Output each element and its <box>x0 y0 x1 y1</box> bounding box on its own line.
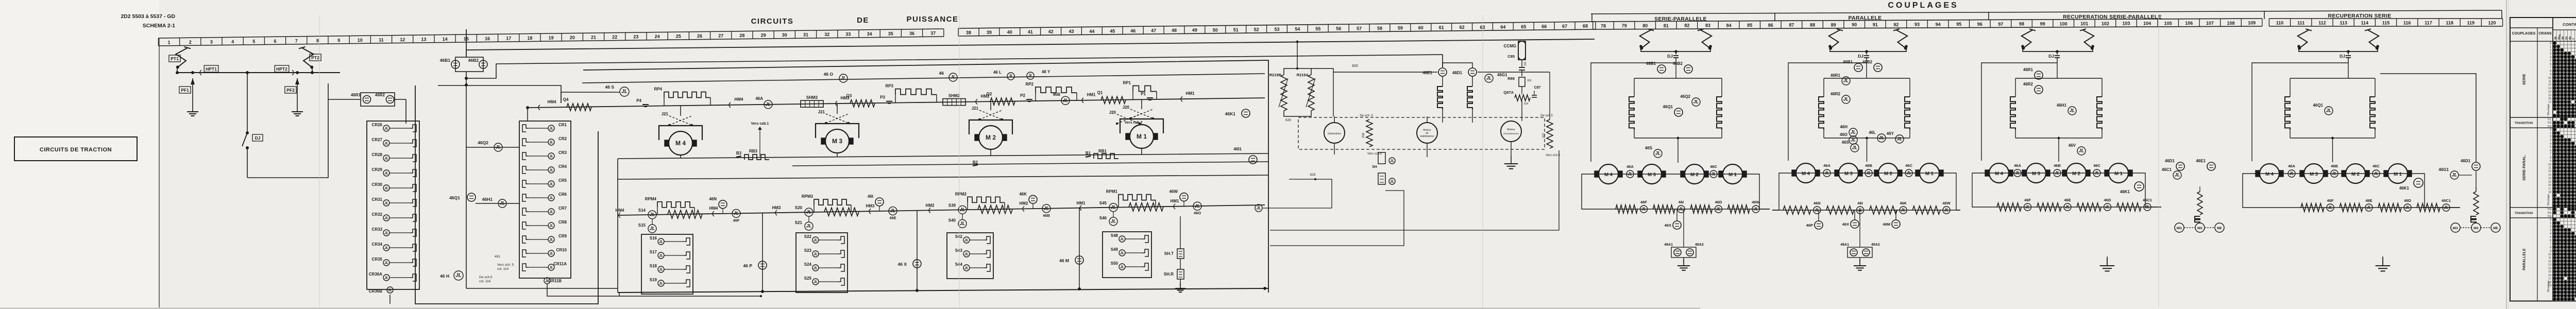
contactor S21 <box>805 222 813 230</box>
svg-text:17: 17 <box>506 36 511 41</box>
svg-text:46E: 46E <box>2365 198 2372 203</box>
svg-text:48: 48 <box>1172 28 1177 33</box>
resistor 206 <box>1366 119 1372 147</box>
contact HM4 third <box>619 213 620 218</box>
svg-text:6: 6 <box>2550 63 2551 66</box>
svg-text:46R1: 46R1 <box>2023 67 2033 72</box>
svg-text:46O: 46O <box>1840 132 1848 137</box>
motor entrainement <box>1501 121 1521 142</box>
resistor RPM1 <box>1118 200 1119 208</box>
outer enclosure box <box>415 85 598 304</box>
svg-text:27: 27 <box>718 33 723 39</box>
svg-text:39: 39 <box>987 30 992 35</box>
svg-text:CR26: CR26 <box>372 123 383 127</box>
svg-text:9: 9 <box>2550 73 2551 76</box>
svg-text:JL: JL <box>2065 205 2070 210</box>
contact P4 <box>642 104 649 105</box>
svg-text:46 Y: 46 Y <box>1042 70 1050 74</box>
resistor RP4 <box>664 98 665 106</box>
contactor 46W <box>1180 193 1188 201</box>
svg-text:80: 80 <box>1642 23 1648 28</box>
svg-text:46A: 46A <box>2014 163 2021 168</box>
contactor 46N <box>719 200 727 209</box>
svg-text:3: 3 <box>210 39 213 44</box>
motor M2 RSP <box>2066 163 2086 183</box>
resistor Q2 <box>990 98 1015 105</box>
svg-text:46A2: 46A2 <box>1695 243 1704 247</box>
svg-text:46F: 46F <box>1640 200 1647 204</box>
svg-text:S46: S46 <box>1099 216 1107 220</box>
resistor 46F <box>1997 203 2022 211</box>
svg-text:99: 99 <box>2040 22 2045 27</box>
pantograph right RS <box>2367 30 2379 48</box>
resistor 46W <box>1728 205 1750 213</box>
svg-text:HM4: HM4 <box>709 206 718 211</box>
contactor SH aux 2 <box>1389 178 1395 184</box>
svg-text:JL: JL <box>1901 208 1906 213</box>
contactor 46B1 <box>1854 63 1862 72</box>
svg-text:JL: JL <box>549 225 553 228</box>
contactor ladder S22-S25 <box>796 233 848 293</box>
svg-text:JL: JL <box>1044 206 1049 211</box>
svg-text:M 4: M 4 <box>2265 171 2274 177</box>
svg-text:JL: JL <box>1390 180 1394 184</box>
svg-text:JL: JL <box>1851 130 1856 135</box>
contactor 46B <box>1042 204 1050 213</box>
svg-text:206: 206 <box>1362 132 1365 138</box>
svg-text:16: 16 <box>2548 97 2551 100</box>
motor M2 P <box>1878 163 1898 183</box>
motor M1 SP <box>1723 164 1742 184</box>
svg-text:SHM3: SHM3 <box>806 95 818 100</box>
svg-text:DJ: DJ <box>1667 54 1673 59</box>
svg-text:46E1: 46E1 <box>2196 159 2206 163</box>
svg-text:CR7: CR7 <box>558 206 567 211</box>
svg-text:Vers cab.2: Vers cab.2 <box>1125 121 1143 125</box>
svg-text:5: 5 <box>252 39 255 44</box>
svg-text:JL: JL <box>814 267 818 270</box>
svg-text:29: 29 <box>761 33 766 38</box>
svg-text:JL: JL <box>2079 148 2084 153</box>
pantograph left RS <box>2298 30 2309 48</box>
svg-text:JL: JL <box>549 211 553 214</box>
svg-text:0: 0 <box>2550 129 2551 132</box>
svg-text:87: 87 <box>1789 23 1794 28</box>
svg-text:JL: JL <box>960 221 965 226</box>
resistor 46I <box>1826 206 1854 214</box>
wire DJ to coils <box>1866 63 1867 78</box>
wire couplage left drop <box>1591 63 1676 162</box>
svg-text:46H: 46H <box>1840 125 1848 129</box>
contactor S45 <box>1109 203 1117 212</box>
wire aux top <box>1414 72 1437 73</box>
contactor between motors <box>2331 170 2338 177</box>
wire aux long 2 <box>1270 191 1404 246</box>
contactor between motors <box>2093 169 2100 177</box>
svg-text:332: 332 <box>1524 61 1527 66</box>
svg-text:M 3: M 3 <box>1648 172 1656 178</box>
svg-text:46: 46 <box>1130 28 1136 33</box>
svg-text:JL: JL <box>384 232 388 235</box>
svg-text:3: 3 <box>2550 139 2551 142</box>
contactor 46D1 <box>2176 162 2184 170</box>
shunt SH.T <box>1177 249 1184 259</box>
svg-text:JL: JL <box>1111 218 1116 224</box>
svg-text:46I1: 46I1 <box>1233 147 1242 151</box>
inductor chain <box>1905 97 1910 130</box>
contactor 46K1 couplage4 <box>2414 178 2423 187</box>
svg-text:100: 100 <box>2060 21 2067 26</box>
title box CIRCUITS DE TRACTION <box>14 137 137 161</box>
svg-text:JL: JL <box>1753 207 1758 212</box>
svg-text:49: 49 <box>1192 28 1197 33</box>
svg-text:46B1: 46B1 <box>1843 60 1853 64</box>
resistor Q1 <box>1101 96 1126 104</box>
svg-text:Q2: Q2 <box>987 92 992 96</box>
svg-text:15: 15 <box>2548 94 2551 97</box>
svg-text:JL: JL <box>2025 205 2030 210</box>
svg-text:TRANSITION: TRANSITION <box>2515 122 2533 125</box>
svg-text:46W: 46W <box>1752 200 1760 204</box>
svg-text:SH: SH <box>1372 165 1377 169</box>
svg-text:JL: JL <box>1897 136 1903 142</box>
svg-text:8: 8 <box>2550 156 2551 159</box>
svg-text:46B: 46B <box>2054 163 2061 168</box>
svg-text:CR8: CR8 <box>558 220 567 225</box>
fold seam lines <box>319 15 320 306</box>
svg-text:11: 11 <box>379 37 384 42</box>
svg-text:JL: JL <box>2015 171 2020 176</box>
svg-text:JL: JL <box>1843 97 1849 102</box>
contactor ladder CR1-CR11B <box>519 121 571 278</box>
svg-text:46A2: 46A2 <box>1871 243 1880 247</box>
ground PF1 <box>192 106 193 112</box>
wire vertical 46M <box>1079 208 1080 289</box>
contactor ladder S42-S44 <box>947 233 993 279</box>
svg-text:2: 2 <box>2550 135 2551 139</box>
svg-text:46A: 46A <box>1823 163 1831 168</box>
inductor chain <box>1629 97 1634 130</box>
svg-text:4: 4 <box>2550 232 2551 235</box>
svg-text:RB1: RB1 <box>1098 149 1107 153</box>
resistor MS branch <box>2197 192 2202 215</box>
svg-text:46G1: 46G1 <box>2438 167 2449 172</box>
contactor between motors <box>2372 170 2380 177</box>
wire entrainement down <box>1511 142 1512 157</box>
svg-text:46B1: 46B1 <box>440 58 451 63</box>
contactor 46P <box>758 261 767 269</box>
svg-text:10: 10 <box>2548 77 2551 80</box>
wire bus second <box>466 55 1443 78</box>
svg-text:JL: JL <box>1906 171 1911 176</box>
svg-text:4: 4 <box>2550 56 2551 59</box>
svg-text:M 1: M 1 <box>1925 171 1934 177</box>
svg-text:28: 28 <box>739 33 744 38</box>
svg-text:B3: B3 <box>736 151 742 156</box>
svg-text:67: 67 <box>1562 24 1567 29</box>
svg-text:CR28: CR28 <box>372 152 383 157</box>
machine MS <box>2195 223 2205 232</box>
svg-text:MG: MG <box>2453 227 2458 230</box>
contact HM1 fourth <box>1174 204 1175 209</box>
svg-text:SCHEMA 2-1: SCHEMA 2-1 <box>143 23 175 29</box>
svg-text:23: 23 <box>633 35 638 40</box>
contactor S14 <box>648 211 656 219</box>
svg-text:HPT2: HPT2 <box>276 66 287 72</box>
svg-text:S19: S19 <box>650 278 657 282</box>
wire motor feed <box>990 101 991 110</box>
svg-text:46 H: 46 H <box>440 273 449 279</box>
svg-text:13: 13 <box>2548 87 2551 90</box>
wire DJ loop <box>247 83 328 178</box>
svg-text:S20: S20 <box>795 205 803 210</box>
svg-text:RPM1: RPM1 <box>1106 190 1118 194</box>
wire motor row <box>1984 173 2134 174</box>
contactor 46Q1 <box>1674 108 1683 116</box>
motor M1 P <box>1920 163 1939 183</box>
svg-text:Shuntage: Shuntage <box>2547 104 2550 115</box>
contact HM1 third <box>1080 205 1081 211</box>
svg-text:46D1: 46D1 <box>1452 71 1463 75</box>
svg-text:46B: 46B <box>1043 213 1050 218</box>
svg-text:19: 19 <box>549 36 554 41</box>
svg-text:Vers cab.1: Vers cab.1 <box>751 122 769 126</box>
contactor 46S <box>1654 149 1662 158</box>
svg-text:16: 16 <box>2548 274 2551 277</box>
bottom edge shadow <box>0 308 1700 309</box>
switch group J20 <box>1130 109 1153 118</box>
wire bus upper <box>466 39 1595 50</box>
contactor 46G1 <box>1485 74 1493 82</box>
resistor 46F <box>1616 205 1638 213</box>
svg-text:M 3: M 3 <box>832 138 842 145</box>
resistor 46W <box>1912 206 1940 214</box>
svg-text:34: 34 <box>867 31 872 37</box>
contactor between motors <box>2014 169 2021 177</box>
contactor S40 <box>958 219 967 228</box>
svg-text:15: 15 <box>2548 270 2551 273</box>
contactor between motors <box>1865 169 1872 177</box>
svg-text:41: 41 <box>1028 29 1033 35</box>
svg-text:RPM3: RPM3 <box>802 194 814 199</box>
svg-text:S21: S21 <box>795 220 803 225</box>
contactor 46F <box>732 209 740 217</box>
motor M3 SP <box>1642 164 1662 184</box>
motor M4 SP <box>1599 164 1618 184</box>
svg-text:M 4: M 4 <box>1802 171 1810 177</box>
svg-text:S40: S40 <box>948 218 956 222</box>
machine ME <box>2215 223 2224 232</box>
svg-text:46S: 46S <box>1842 140 1850 145</box>
svg-text:JL: JL <box>1641 207 1646 212</box>
svg-text:HM1: HM1 <box>1077 201 1086 205</box>
svg-text:JL: JL <box>1879 135 1885 141</box>
wire motor row <box>1790 173 1945 174</box>
switch group J21 <box>826 114 849 123</box>
contactor 46I <box>875 198 884 206</box>
svg-text:PARALLELE: PARALLELE <box>1849 15 1882 21</box>
resistor 46D <box>1690 205 1713 213</box>
contactor between motors <box>2054 169 2061 177</box>
svg-text:46H1: 46H1 <box>2057 103 2067 108</box>
contactor 46 <box>949 73 957 81</box>
wire bus B2 <box>792 162 1268 166</box>
svg-text:10: 10 <box>2548 163 2551 166</box>
contactor 46R2 <box>2035 85 2043 94</box>
svg-text:626: 626 <box>1285 118 1291 122</box>
svg-text:1: 1 <box>2550 222 2551 225</box>
column ruler 78-109 <box>1593 19 2262 22</box>
contact HM2 third <box>929 208 930 213</box>
svg-text:JL: JL <box>549 238 553 242</box>
svg-text:20: 20 <box>570 35 575 40</box>
wire aux row 1 <box>1263 208 1332 209</box>
svg-text:46I: 46I <box>1857 201 1862 205</box>
svg-text:JL: JL <box>659 241 663 244</box>
svg-text:46C1: 46C1 <box>2143 198 2152 202</box>
pantograph PT2 <box>301 48 313 67</box>
svg-text:P4: P4 <box>636 98 641 103</box>
svg-text:JL: JL <box>549 252 553 256</box>
svg-text:105: 105 <box>2164 21 2172 26</box>
contact tick <box>1082 98 1083 103</box>
svg-text:46C: 46C <box>1905 163 1912 168</box>
wire bottom bus 2 <box>466 288 618 289</box>
motor M1 <box>1130 125 1154 148</box>
svg-text:65: 65 <box>1521 24 1526 29</box>
contactor 46E <box>889 207 897 215</box>
svg-text:120: 120 <box>2488 21 2496 26</box>
resistor 46C1 <box>2417 203 2440 212</box>
wire couplage left drop <box>1981 63 2057 161</box>
svg-text:Q4: Q4 <box>563 97 569 102</box>
contactor 46S <box>620 87 629 96</box>
svg-text:18: 18 <box>2548 191 2551 194</box>
contactor SH aux 1 <box>1389 158 1395 164</box>
svg-text:JL: JL <box>384 172 388 176</box>
svg-text:M 2: M 2 <box>1884 171 1892 177</box>
svg-text:M 4: M 4 <box>675 140 686 147</box>
svg-text:JL: JL <box>1824 171 1829 176</box>
svg-text:46B2: 46B2 <box>1862 60 1873 64</box>
svg-text:113: 113 <box>2340 21 2347 26</box>
svg-text:57: 57 <box>1357 26 1362 31</box>
svg-text:RECUPERATION SERIE: RECUPERATION SERIE <box>2328 13 2391 19</box>
machine MG <box>2451 223 2460 232</box>
contact P2 <box>1026 99 1032 100</box>
svg-text:14: 14 <box>2548 177 2551 180</box>
svg-text:SERIE-PARAL.: SERIE-PARAL. <box>2522 154 2527 180</box>
svg-text:JL: JL <box>1256 206 1261 211</box>
svg-text:Q87A: Q87A <box>1503 90 1514 95</box>
svg-text:JL: JL <box>1628 172 1632 177</box>
svg-text:46K: 46K <box>1019 192 1027 196</box>
svg-text:64: 64 <box>1500 24 1505 29</box>
svg-text:RPM4: RPM4 <box>645 197 657 201</box>
svg-text:COUPLAGES: COUPLAGES <box>1888 1 1958 10</box>
svg-text:RP4: RP4 <box>654 87 662 92</box>
svg-text:104: 104 <box>2143 21 2151 26</box>
svg-text:CR10: CR10 <box>556 248 567 252</box>
field winding bracket <box>816 124 859 138</box>
svg-text:46D: 46D <box>2404 198 2411 203</box>
svg-text:R219A: R219A <box>1297 73 1309 77</box>
svg-text:78: 78 <box>1601 23 1606 28</box>
svg-text:111: 111 <box>2297 21 2304 26</box>
svg-text:JL: JL <box>1111 204 1116 210</box>
svg-text:12: 12 <box>400 37 405 42</box>
svg-text:PT1: PT1 <box>171 56 179 61</box>
wire couplage left side <box>1582 174 1605 209</box>
contactor 46K <box>1029 195 1037 203</box>
svg-text:112: 112 <box>2318 21 2326 26</box>
svg-text:4: 4 <box>2550 143 2551 146</box>
svg-text:R219B: R219B <box>1269 73 1282 77</box>
contactor 46B <box>1061 96 1070 105</box>
svg-text:10: 10 <box>358 38 363 43</box>
svg-text:91: 91 <box>1873 22 1878 27</box>
svg-text:46 S: 46 S <box>605 84 615 90</box>
svg-text:46W: 46W <box>1170 190 1178 194</box>
svg-text:10: 10 <box>2548 253 2551 256</box>
svg-text:JL: JL <box>2105 205 2110 210</box>
svg-text:83: 83 <box>1705 23 1710 28</box>
svg-text:3: 3 <box>2550 53 2551 56</box>
wire motor feed <box>680 106 681 116</box>
svg-text:JL: JL <box>2055 171 2059 176</box>
svg-text:M 1: M 1 <box>2114 171 2123 177</box>
svg-text:333: 333 <box>1527 79 1532 82</box>
svg-text:JL: JL <box>2374 171 2378 176</box>
svg-text:JL: JL <box>1693 99 1699 105</box>
svg-text:RECUPERATION SERIE-PARALLELE: RECUPERATION SERIE-PARALLELE <box>2063 14 2162 20</box>
svg-text:JL: JL <box>1120 266 1124 269</box>
wire motor to bus <box>837 153 838 157</box>
svg-text:Q1: Q1 <box>1097 90 1103 95</box>
wire couplage4 right <box>2380 74 2476 162</box>
svg-text:JL: JL <box>964 267 969 270</box>
contactor 46O <box>839 74 848 82</box>
contactor S20 <box>805 208 813 216</box>
svg-text:RP2: RP2 <box>1025 82 1033 87</box>
contactor 46M <box>1892 220 1900 228</box>
wire couplage bus <box>1641 46 1710 51</box>
resistor shunt RPM3 <box>824 208 859 216</box>
svg-text:Tr1: Tr1 <box>2547 118 2551 121</box>
contactor 46Q1 <box>467 193 476 201</box>
inductor chain <box>2370 97 2375 130</box>
svg-text:Tr4: Tr4 <box>2547 208 2551 211</box>
svg-text:S23: S23 <box>804 248 812 253</box>
svg-text:46N: 46N <box>709 197 717 201</box>
svg-text:De sch.5: De sch.5 <box>1540 114 1553 117</box>
wire couplage left drop <box>2252 63 2348 161</box>
svg-text:9: 9 <box>2550 160 2551 163</box>
wire coil bottoms <box>2290 138 2375 139</box>
svg-text:JL: JL <box>2405 205 2410 210</box>
table couplage section labels <box>2510 41 2576 42</box>
contactor 46O <box>1193 202 1201 210</box>
field winding bracket <box>969 120 1012 134</box>
svg-text:35: 35 <box>888 31 893 37</box>
svg-text:HPT1: HPT1 <box>206 66 217 72</box>
shunt block SHM2 <box>943 99 965 106</box>
svg-text:2: 2 <box>2550 49 2551 52</box>
svg-text:CR6: CR6 <box>558 192 567 197</box>
svg-text:B2: B2 <box>973 160 978 165</box>
svg-text:CIRCUITS: CIRCUITS <box>751 17 794 26</box>
svg-text:42: 42 <box>1048 29 1054 35</box>
